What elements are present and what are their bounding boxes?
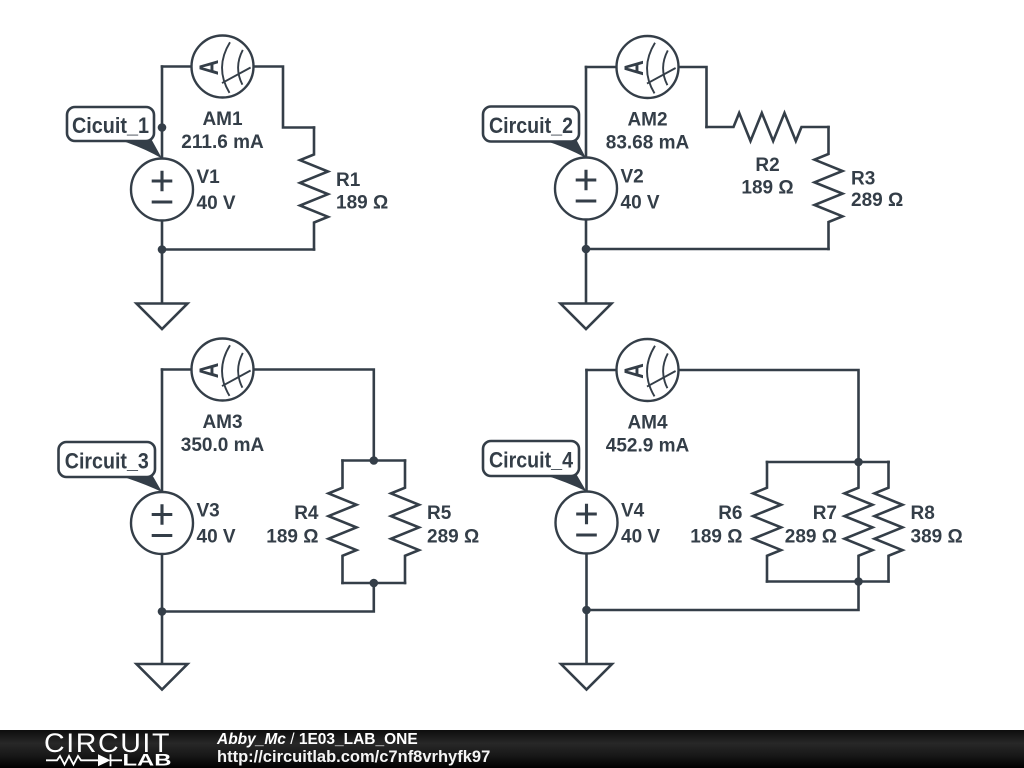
svg-text:AM1: AM1: [202, 109, 243, 130]
svg-text:389 Ω: 389 Ω: [911, 527, 963, 548]
svg-text:350.0 mA: 350.0 mA: [181, 435, 265, 456]
svg-text:189 Ω: 189 Ω: [741, 178, 793, 199]
svg-text:AM4: AM4: [627, 413, 668, 434]
svg-text:V4: V4: [621, 501, 645, 522]
svg-text:211.6 mA: 211.6 mA: [181, 132, 264, 153]
svg-text:R1: R1: [336, 170, 361, 191]
svg-text:189 Ω: 189 Ω: [690, 527, 742, 548]
svg-text:http://circuitlab.com/c7nf8vrh: http://circuitlab.com/c7nf8vrhyfk97: [217, 748, 490, 766]
svg-text:R7: R7: [813, 503, 837, 524]
svg-text:R6: R6: [718, 503, 742, 524]
svg-text:289 Ω: 289 Ω: [851, 190, 903, 211]
svg-text:Abby_Mc / 1E03_LAB_ONE: Abby_Mc / 1E03_LAB_ONE: [216, 731, 418, 748]
svg-text:Cicuit_1: Cicuit_1: [72, 113, 149, 138]
svg-text:189 Ω: 189 Ω: [336, 193, 388, 214]
svg-text:V3: V3: [197, 501, 220, 522]
svg-text:Circuit_3: Circuit_3: [65, 448, 149, 473]
svg-text:R8: R8: [911, 503, 935, 524]
svg-text:V2: V2: [621, 167, 644, 188]
svg-text:83.68 mA: 83.68 mA: [606, 133, 690, 154]
svg-text:R4: R4: [294, 503, 319, 524]
svg-text:A: A: [194, 60, 224, 76]
svg-text:R5: R5: [427, 503, 452, 524]
svg-text:40 V: 40 V: [197, 193, 236, 214]
svg-text:189 Ω: 189 Ω: [266, 527, 318, 548]
svg-text:Circuit_4: Circuit_4: [489, 447, 574, 472]
svg-text:40 V: 40 V: [197, 527, 236, 548]
svg-text:AM2: AM2: [627, 110, 667, 131]
svg-text:A: A: [619, 60, 649, 76]
svg-text:AM3: AM3: [202, 412, 242, 433]
svg-text:R3: R3: [851, 169, 875, 190]
svg-text:40 V: 40 V: [621, 527, 660, 548]
svg-text:LAB: LAB: [123, 751, 172, 768]
svg-text:289 Ω: 289 Ω: [427, 527, 479, 548]
svg-text:R2: R2: [755, 155, 779, 176]
svg-text:A: A: [194, 363, 224, 379]
svg-text:40 V: 40 V: [621, 193, 660, 214]
svg-text:V1: V1: [197, 167, 221, 188]
svg-text:Circuit_2: Circuit_2: [489, 113, 573, 138]
svg-text:452.9 mA: 452.9 mA: [606, 436, 690, 457]
svg-text:A: A: [619, 363, 649, 379]
svg-text:289 Ω: 289 Ω: [785, 527, 837, 548]
